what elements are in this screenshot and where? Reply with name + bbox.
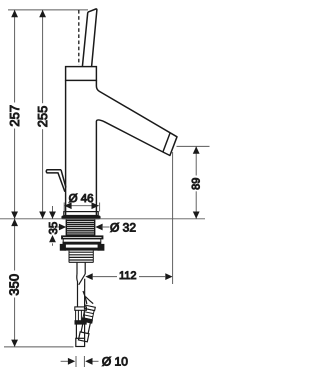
dimension 257	[11, 10, 18, 219]
hose A end	[76, 338, 85, 346]
threaded shank	[66, 220, 94, 236]
hose kink	[76, 274, 79, 307]
dimension O46	[64, 202, 99, 211]
dimension O10	[61, 356, 99, 367]
washer plate	[62, 236, 104, 239]
nut ears	[60, 244, 65, 250]
hose B fitting (angled)	[78, 305, 96, 342]
dimension 255	[39, 10, 46, 219]
dashed center axis of lever	[78, 10, 80, 65]
body right edge	[95, 121, 97, 216]
body left edge	[65, 80, 67, 215]
dimension 112	[85, 152, 172, 284]
svg-text:255: 255	[35, 106, 50, 128]
spout	[96, 80, 177, 155]
cap (cartridge housing)	[66, 67, 97, 81]
svg-text:Ø 10: Ø 10	[102, 355, 128, 369]
svg-text:257: 257	[7, 105, 22, 127]
supply tube	[76, 263, 78, 275]
svg-text:112: 112	[119, 270, 137, 282]
deck reference line	[0, 218, 205, 220]
svg-text:Ø 46: Ø 46	[69, 193, 94, 205]
pop-up rod hook	[46, 170, 66, 192]
dimension 89	[177, 146, 210, 218]
threaded tail	[69, 251, 93, 263]
base bevel band	[64, 212, 98, 216]
hose A lower	[75, 324, 77, 338]
top extension line	[8, 9, 88, 11]
hose A fitting	[75, 307, 87, 310]
svg-text:Ø 32: Ø 32	[110, 221, 136, 235]
nut top band	[63, 242, 101, 244]
escutcheon plate	[62, 216, 100, 219]
svg-text:35: 35	[48, 222, 60, 235]
svg-text:350: 350	[7, 274, 22, 296]
svg-text:89: 89	[191, 178, 203, 190]
dimension 35	[49, 206, 56, 246]
nut bottom band	[65, 248, 99, 251]
dimension O32	[57, 224, 110, 231]
dimension 350	[4, 219, 74, 347]
lever handle	[82, 9, 97, 67]
gap ring sides	[62, 239, 64, 242]
hose B upper	[83, 291, 87, 304]
aerator inner face line	[163, 133, 170, 152]
